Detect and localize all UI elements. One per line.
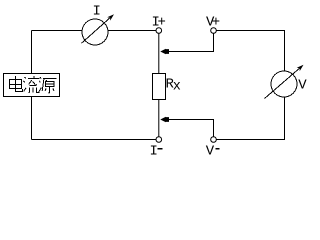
arrowhead V- sense pointing left — [160, 117, 169, 122]
wire voltmeter bottom to V- — [217, 97, 285, 140]
ammeter arrowhead — [107, 14, 114, 20]
glyph 源 — [39, 77, 41, 91]
svg-text:I: I — [93, 4, 101, 20]
svg-text:V: V — [298, 78, 307, 94]
current source box — [4, 74, 60, 97]
voltmeter needle diagonal — [265, 68, 300, 98]
ammeter needle diagonal — [82, 18, 111, 44]
voltmeter arrowhead — [297, 65, 304, 71]
wire left vertical branch — [31, 31, 33, 140]
terminal V- — [211, 137, 217, 143]
ammeter A1 circle — [82, 19, 108, 45]
wire top-left horizontal from current source branch to I+ terminal — [32, 30, 157, 32]
svg-text:+: + — [212, 15, 220, 31]
wire V+ to voltmeter top — [217, 31, 285, 72]
svg-text:V: V — [206, 144, 215, 160]
wire Rx branch vertical I+ to I- — [158, 33, 160, 137]
svg-text:x: x — [173, 80, 181, 95]
svg-text:+: + — [158, 15, 166, 31]
glyph 电 — [16, 76, 23, 92]
glyph 流 — [24, 77, 27, 91]
svg-text:I: I — [150, 144, 158, 160]
resistor RX body — [153, 74, 166, 100]
wire V+ sense lead to Rx node — [166, 33, 214, 52]
wire V- sense lead to Rx node — [166, 120, 214, 138]
terminal I- — [156, 137, 162, 143]
arrowhead V+ sense pointing left — [160, 49, 169, 54]
wire bottom-left horizontal to I- terminal — [32, 139, 157, 141]
terminal V+ — [211, 28, 217, 34]
terminal I+ — [156, 28, 162, 34]
voltmeter V1 circle — [271, 71, 297, 97]
current source label 电流源 (hand-drawn glyphs) — [10, 76, 57, 93]
